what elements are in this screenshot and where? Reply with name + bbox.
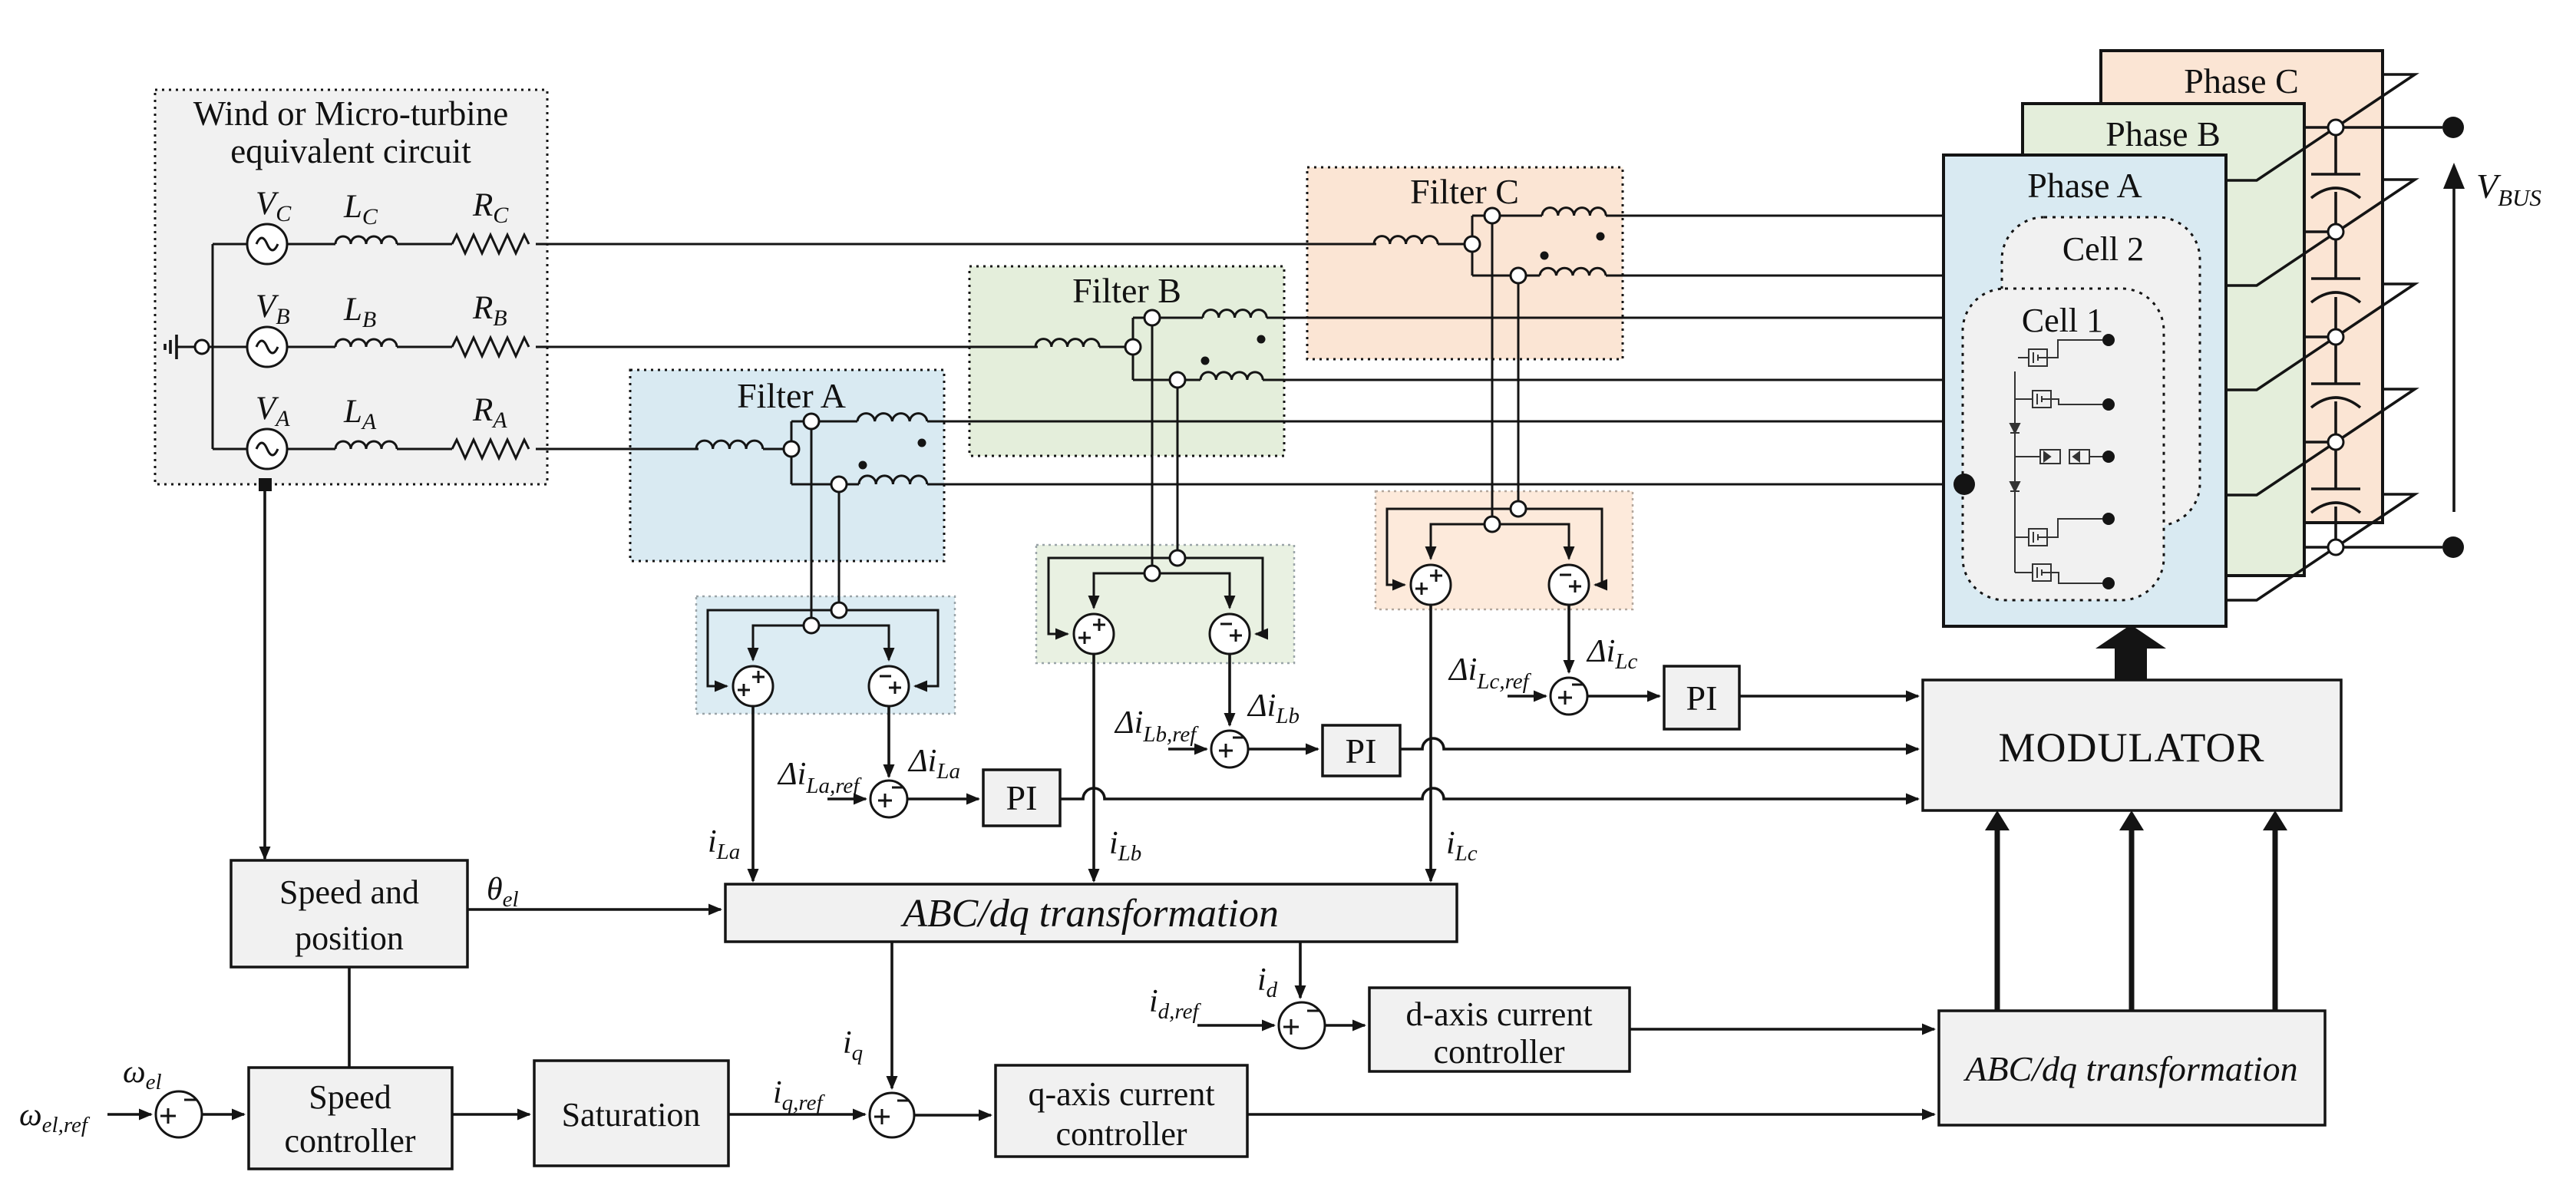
cell internal transistor T2 — [2015, 371, 2102, 408]
capacitor C3 — [2311, 384, 2360, 408]
svg-text:MODULATOR: MODULATOR — [1998, 725, 2264, 771]
wire overdraw filter B sense verticals — [1152, 537, 1177, 566]
wire phase B row to Filter B — [536, 346, 1035, 348]
cell internal transistor T4 — [2015, 542, 2102, 583]
capacitor C1 — [2311, 174, 2360, 198]
svg-text:Cell 1: Cell 1 — [2022, 302, 2103, 339]
bus node 4 — [2328, 434, 2343, 450]
summer delta c — [1551, 678, 1587, 715]
svg-text:q-axis current: q-axis current — [1028, 1075, 1214, 1113]
cell internal transistor T3 — [2015, 519, 2102, 546]
polarity dot Filter A bottom coil — [859, 461, 867, 470]
wire bus to Va — [213, 448, 247, 451]
wire PI C to modulator — [1739, 695, 1918, 698]
node junction on phase A input — [1953, 474, 1975, 495]
wire theta el to ABC/dq — [467, 908, 721, 911]
wire delta iLa feed — [887, 706, 890, 777]
wire q-axis controller to ABC/dq 2 — [1247, 1113, 1934, 1116]
node sum C rail inner — [1485, 517, 1500, 532]
node Filter A top branch — [804, 414, 819, 429]
wire d-axis controller to ABC/dq 2 — [1630, 1028, 1934, 1031]
wire VA to LA — [287, 448, 335, 451]
bus node 2 — [2328, 224, 2343, 239]
polarity dot Filter B top coil — [1257, 335, 1266, 344]
wire Filter A top branch — [791, 421, 857, 423]
wire sum A outer rail right — [839, 610, 938, 686]
wire heavy arrow 1 ABC/dq2 to modulator — [1985, 810, 2010, 1011]
bus node 5 — [2328, 540, 2343, 555]
wire overdraw filter A sense verticals — [811, 591, 839, 618]
wire VC to LC — [287, 243, 335, 246]
speed and position block — [231, 860, 467, 967]
wire VB to LB — [287, 346, 335, 348]
svg-text:controller: controller — [284, 1122, 415, 1160]
source VB — [247, 289, 290, 367]
wire heavy arrow 2 ABC/dq2 to modulator — [2119, 810, 2144, 1011]
svg-text:controller: controller — [1433, 1033, 1564, 1071]
Filter C coupled inductor bottom — [1540, 268, 1606, 276]
wire Filter A bottom sense vertical — [838, 492, 841, 610]
wire heavy arrow 3 ABC/dq2 to modulator — [2263, 810, 2287, 1011]
summer C minus — [1549, 565, 1589, 605]
resistor RB — [452, 290, 529, 356]
wire LA to RA — [397, 448, 452, 451]
wire PI A to modulator with hops — [1060, 788, 1918, 799]
cell terminal dot 4 — [2102, 513, 2115, 525]
bus node 3 — [2328, 329, 2343, 345]
Filter A coupled inductor bottom — [859, 476, 927, 484]
wire speed position to speed controller — [348, 967, 351, 1068]
wire sum A inner rail right — [811, 626, 889, 660]
polarity dot Filter B bottom coil — [1201, 357, 1210, 365]
wire iq from ABC/dq — [890, 942, 893, 1088]
wire speed controller to saturation — [452, 1113, 530, 1116]
summer delta a — [870, 781, 907, 817]
wire summer to PI B — [1248, 748, 1318, 751]
summer delta b — [1211, 731, 1248, 767]
wire Filter C top output to Phase A — [1606, 215, 1944, 217]
Filter A input inductor — [696, 441, 763, 449]
polarity dot Filter C bottom coil — [1541, 252, 1549, 260]
wire overdraw filter C input inside box — [1307, 243, 1376, 246]
wire sum B inner rail left — [1094, 573, 1152, 608]
wire iLc to ABC/dq — [1429, 605, 1432, 881]
wire bus node1 to positive terminal — [2304, 126, 2442, 129]
svg-text:position: position — [295, 919, 404, 957]
Filter B coupled inductor top — [1203, 310, 1267, 318]
summer iq — [870, 1093, 914, 1137]
wire Filter A top sense vertical — [811, 429, 813, 626]
wire id from ABC/dq — [1299, 942, 1302, 998]
wire Filter B top branch — [1133, 317, 1203, 319]
wire PI B to modulator with hop — [1400, 738, 1918, 749]
wire delta iLc ref input — [1508, 695, 1546, 698]
svg-text:controller: controller — [1055, 1115, 1187, 1153]
summer id — [1279, 1002, 1325, 1048]
negative bus terminal — [2442, 536, 2464, 558]
Vbus arrow — [2443, 163, 2541, 512]
node Filter C input — [1465, 236, 1480, 252]
wire Filter B inductor to node — [1099, 346, 1133, 348]
wire Filter C top sense vertical — [1491, 223, 1494, 524]
wire summer to PI A — [907, 797, 979, 800]
wire sum C inner rail right — [1492, 524, 1569, 559]
source VC — [247, 186, 292, 264]
cell terminal dot 3 — [2102, 451, 2115, 463]
current summing box A — [696, 596, 955, 714]
cell internal diode D2 — [2010, 482, 2020, 491]
Filter C branch stub — [1471, 216, 1474, 276]
summer A plus — [733, 666, 773, 706]
PI controller B — [1323, 725, 1400, 776]
wire phase C row to Filter C — [536, 243, 1374, 246]
ABC/dq transformation block — [725, 884, 1457, 942]
dc bus capacitor chain line — [2334, 127, 2337, 547]
wire summer to d-axis controller — [1325, 1024, 1365, 1027]
wire Filter A bottom branch — [791, 484, 859, 486]
wire bus node5 to negative terminal — [2304, 546, 2442, 549]
Cell 1 rounded box — [1963, 289, 2164, 600]
svg-text:Phase B: Phase B — [2105, 114, 2221, 153]
svg-text:Cell 2: Cell 2 — [2062, 230, 2144, 268]
cell internal dc rail — [2014, 371, 2016, 542]
svg-text:Filter A: Filter A — [737, 376, 846, 415]
inductor LC — [335, 189, 397, 244]
wire turbine to speed and position block — [263, 491, 266, 859]
wire sum C inner rail left — [1431, 524, 1492, 559]
capacitor C4 — [2311, 489, 2360, 513]
wire summer to PI C — [1587, 695, 1660, 698]
svg-text:PI: PI — [1006, 778, 1038, 817]
wire Filter B bottom branch — [1133, 379, 1200, 381]
svg-text:Saturation: Saturation — [562, 1096, 701, 1134]
node Filter B top branch — [1144, 310, 1160, 325]
bus node 1 — [2328, 120, 2343, 135]
modulator to phase A thick arrow — [2095, 625, 2166, 680]
wire sum C outer rail — [1387, 509, 1518, 585]
speed controller block — [249, 1068, 452, 1169]
wind/micro-turbine equivalent circuit box — [155, 90, 547, 484]
svg-text:ABC/dq transformation: ABC/dq transformation — [1963, 1049, 2297, 1088]
wire LB to RB — [397, 346, 452, 348]
wire Filter C inductor to node — [1438, 243, 1472, 246]
svg-text:PI: PI — [1686, 678, 1718, 718]
Phase C box — [2101, 51, 2383, 523]
wire bus node2 stub — [2304, 230, 2336, 233]
svg-text:PI: PI — [1346, 731, 1377, 771]
wire overdraw filter A top output across filter B box — [967, 421, 1286, 423]
node Filter C bottom branch — [1511, 268, 1526, 283]
wire Filter C bottom sense vertical — [1518, 283, 1520, 509]
node Filter B input — [1125, 339, 1141, 355]
dc link diagonal 3 — [2226, 284, 2415, 390]
wire sum A outer rail — [708, 610, 839, 686]
wire sum B outer rail — [1049, 558, 1177, 634]
svg-text:Filter C: Filter C — [1410, 172, 1519, 211]
wire node to Vb — [209, 346, 247, 348]
Phase B box — [2023, 104, 2304, 576]
wire id ref input — [1197, 1024, 1274, 1027]
node Filter C top branch — [1485, 208, 1500, 223]
PI controller C — [1664, 666, 1739, 729]
svg-text:Filter B: Filter B — [1072, 271, 1181, 310]
wire sum A inner rail left — [753, 626, 811, 660]
wire Filter B top sense vertical — [1151, 325, 1154, 573]
current summing box C — [1376, 491, 1633, 609]
wire overdraw filter A input inside box — [630, 448, 698, 451]
wire delta iLb ref input — [1168, 748, 1207, 751]
wire iLb to ABC/dq — [1092, 654, 1095, 881]
svg-text:Phase A: Phase A — [2027, 166, 2142, 205]
summer omega — [156, 1091, 202, 1137]
wire sum C outer rail right — [1518, 509, 1602, 585]
wire overdraw filter C sense verticals — [1492, 484, 1518, 517]
inductor LA — [335, 394, 397, 449]
wire Filter C top branch — [1472, 215, 1542, 217]
saturation block — [534, 1061, 728, 1166]
wire sum B inner rail right — [1152, 573, 1230, 608]
Filter A branch stub — [791, 421, 793, 484]
cell internal transistor T1 — [2018, 340, 2102, 366]
Filter A coupled inductor top — [857, 414, 927, 421]
wire Filter C bottom branch — [1472, 275, 1540, 277]
svg-text:Speed and: Speed and — [279, 873, 419, 911]
wire overdraw filter B input inside box — [969, 346, 1038, 348]
node sum A rail outer — [831, 602, 847, 618]
svg-text:ABC/dq transformation: ABC/dq transformation — [900, 892, 1279, 936]
wire delta iLa ref input — [827, 797, 866, 800]
ground — [165, 335, 209, 359]
svg-text:equivalent circuit: equivalent circuit — [230, 132, 471, 170]
dc link diagonal 5 — [2226, 494, 2415, 600]
summer B minus — [1210, 614, 1250, 654]
wire Filter A inductor to node — [763, 448, 791, 451]
node Filter A bottom branch — [831, 477, 847, 492]
wire Filter A bottom output to Phase A — [927, 484, 1944, 486]
cell terminal dot 5 — [2102, 577, 2115, 589]
summer C plus — [1411, 565, 1451, 605]
ABC/dq transformation block 2 — [1939, 1011, 2325, 1125]
wire omega ref input — [107, 1113, 151, 1116]
Filter B coupled inductor bottom — [1200, 372, 1263, 380]
wire LC to RC — [397, 243, 452, 246]
dc link diagonal 1 — [2226, 74, 2415, 180]
wire Filter A top output to Phase A — [927, 421, 1944, 423]
summer A minus — [869, 666, 909, 706]
wire summer to q-axis controller — [914, 1114, 991, 1117]
dc link diagonal 4 — [2226, 389, 2415, 495]
Filter B box — [969, 266, 1284, 456]
svg-text:Speed: Speed — [309, 1078, 391, 1116]
cell internal diode D1 — [2010, 424, 2020, 433]
cell internal middle transistor pair — [2015, 450, 2109, 464]
node Filter B bottom branch — [1170, 372, 1185, 388]
capacitor C2 — [2311, 279, 2360, 302]
junction square on turbine box bottom — [259, 478, 272, 491]
wire bus to Vc — [213, 243, 247, 246]
source VA — [247, 391, 290, 469]
wire iLa to ABC/dq — [751, 706, 755, 881]
node sum B rail outer — [1170, 550, 1185, 566]
PI controller A — [983, 770, 1060, 826]
wire saturation to summer iq — [728, 1113, 865, 1116]
summer B plus — [1074, 614, 1114, 654]
wire sum B outer rail right — [1177, 558, 1263, 634]
Phase A box — [1944, 155, 2226, 626]
cell terminal dot 1 — [2102, 334, 2115, 346]
inductor LB — [335, 292, 397, 347]
wire overdraw filter B top output across filter C box — [1305, 317, 1625, 319]
wire summer to speed controller — [202, 1113, 244, 1116]
dc link diagonal 2 — [2226, 180, 2415, 286]
polarity dot Filter C top coil — [1597, 233, 1605, 241]
node sum B rail inner — [1144, 566, 1160, 581]
node Filter A input — [784, 441, 799, 457]
node sum A rail inner — [804, 618, 819, 633]
wire Filter B bottom sense vertical — [1177, 388, 1179, 558]
current summing box B — [1036, 545, 1294, 663]
Filter B input inductor — [1035, 339, 1099, 347]
Filter C input inductor — [1374, 236, 1438, 244]
Filter C box — [1307, 167, 1623, 359]
wire source common bus — [212, 244, 214, 449]
cell terminal dot 2 — [2102, 398, 2115, 411]
Cell 2 rounded box — [2002, 217, 2200, 526]
wire phase A row to Filter A — [536, 448, 696, 451]
svg-text:Phase C: Phase C — [2184, 61, 2299, 101]
Filter A box — [630, 370, 944, 561]
q-axis current controller block — [996, 1065, 1247, 1157]
polarity dot Filter A top coil — [918, 439, 926, 447]
node sum C rail outer — [1511, 501, 1526, 517]
Filter B branch stub — [1132, 318, 1134, 380]
wire delta iLb feed — [1228, 654, 1231, 725]
wire Filter C bottom output to Phase A — [1606, 275, 1944, 277]
wire Filter B bottom output to Phase A — [1263, 379, 1944, 381]
wire bus node3 stub — [2304, 335, 2336, 338]
svg-text:d-axis current: d-axis current — [1405, 995, 1592, 1033]
resistor RA — [452, 392, 529, 458]
positive bus terminal — [2442, 117, 2464, 138]
Filter C coupled inductor top — [1542, 208, 1606, 216]
resistor RC — [452, 187, 529, 253]
wire bus node4 stub — [2304, 441, 2336, 444]
wire Filter B top output to Phase A — [1267, 317, 1944, 319]
svg-text:Wind or Micro-turbine: Wind or Micro-turbine — [193, 94, 509, 133]
wire delta iLc feed — [1567, 605, 1570, 672]
d-axis current controller block — [1369, 988, 1630, 1071]
modulator block — [1923, 680, 2341, 810]
